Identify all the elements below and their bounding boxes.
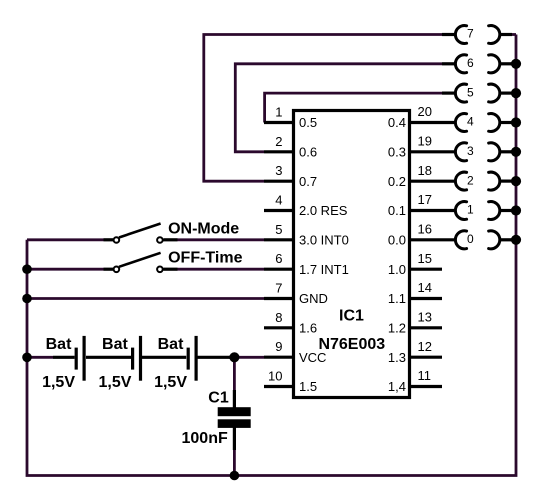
svg-text:0.6: 0.6 [299,145,317,160]
svg-text:7: 7 [275,281,282,296]
svg-text:16: 16 [418,222,432,237]
svg-text:1.0: 1.0 [388,262,406,277]
svg-text:Bat: Bat [46,336,72,353]
svg-text:100nF: 100nF [182,430,228,447]
svg-text:3: 3 [467,144,474,158]
svg-text:3: 3 [275,163,282,178]
svg-text:1,5V: 1,5V [42,374,75,391]
svg-text:19: 19 [418,134,432,149]
svg-text:0.2: 0.2 [388,174,406,189]
svg-text:GND: GND [299,291,328,306]
svg-text:1.7 INT1: 1.7 INT1 [299,262,349,277]
svg-text:12: 12 [418,339,432,354]
svg-text:7: 7 [467,27,474,41]
svg-text:5: 5 [467,85,474,99]
svg-text:11: 11 [418,368,432,383]
svg-text:6: 6 [467,56,474,70]
svg-text:0.4: 0.4 [388,115,406,130]
svg-text:OFF-Time: OFF-Time [168,249,242,266]
svg-text:2: 2 [275,134,282,149]
svg-text:3.0 INT0: 3.0 INT0 [299,233,349,248]
svg-text:1,5V: 1,5V [98,374,131,391]
svg-text:1.5: 1.5 [299,379,317,394]
svg-text:10: 10 [268,369,282,384]
svg-text:13: 13 [418,310,432,325]
svg-text:C1: C1 [208,389,229,406]
svg-text:1.1: 1.1 [388,291,406,306]
svg-text:1: 1 [275,105,282,120]
svg-text:0.1: 0.1 [388,203,406,218]
svg-text:ON-Mode: ON-Mode [168,220,239,237]
svg-text:0: 0 [467,232,474,246]
svg-text:4: 4 [467,115,474,129]
svg-text:1.3: 1.3 [388,350,406,365]
svg-text:1.6: 1.6 [299,321,317,336]
svg-text:15: 15 [418,251,432,266]
svg-text:1.2: 1.2 [388,321,406,336]
svg-text:1: 1 [467,203,474,217]
svg-text:0.3: 0.3 [388,145,406,160]
svg-text:4: 4 [275,193,282,208]
svg-text:Bat: Bat [158,336,184,353]
svg-text:9: 9 [275,339,282,354]
svg-text:20: 20 [418,104,432,119]
svg-text:6: 6 [275,251,282,266]
svg-text:0.0: 0.0 [388,233,406,248]
svg-text:2: 2 [467,173,474,187]
svg-text:2.0 RES: 2.0 RES [299,203,348,218]
svg-text:8: 8 [275,310,282,325]
svg-text:14: 14 [418,280,432,295]
svg-text:18: 18 [418,163,432,178]
svg-text:1,5V: 1,5V [154,374,187,391]
svg-text:1,4: 1,4 [388,379,406,394]
svg-text:5: 5 [275,222,282,237]
svg-text:Bat: Bat [102,336,128,353]
svg-text:17: 17 [418,192,432,207]
svg-text:0.5: 0.5 [299,115,317,130]
svg-text:0.7: 0.7 [299,174,317,189]
svg-text:N76E003: N76E003 [318,336,385,353]
svg-text:IC1: IC1 [339,308,364,325]
